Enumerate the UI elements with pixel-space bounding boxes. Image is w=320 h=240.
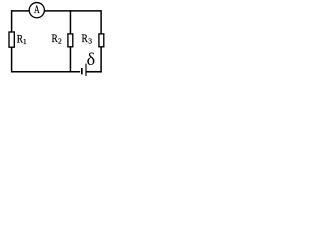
wire top-middle segment (ammeter to node of R2 branch) [44,10,70,12]
svg-text:2: 2 [58,37,62,46]
resistor R1 box [9,32,14,47]
svg-text:R: R [52,33,58,45]
svg-text:A: A [34,4,40,17]
battery BT1 long thin plate (positive) [85,64,87,76]
wire bottom segment right (battery to corner) [87,71,102,73]
svg-text:3: 3 [88,37,92,46]
wire top-right segment (node to top-right corner) [70,10,101,12]
wire right branch lower [100,47,102,73]
wire top-left segment (corner to ammeter) [12,10,30,12]
ammeter U1 circle [29,3,44,18]
resistor R3 box [99,34,104,47]
wire middle branch lower [69,47,71,73]
wire right branch upper [100,10,102,34]
svg-text:1: 1 [23,37,27,46]
resistor R2 box [68,34,73,47]
svg-text:δ: δ [87,49,95,69]
wire left branch lower [11,47,13,72]
wire bottom segment left (corner to battery) [12,71,81,73]
wire left branch upper [11,10,13,32]
wire middle branch upper [69,10,71,34]
svg-text:R: R [82,33,88,45]
battery BT1 short thick plate (negative) [81,68,83,74]
